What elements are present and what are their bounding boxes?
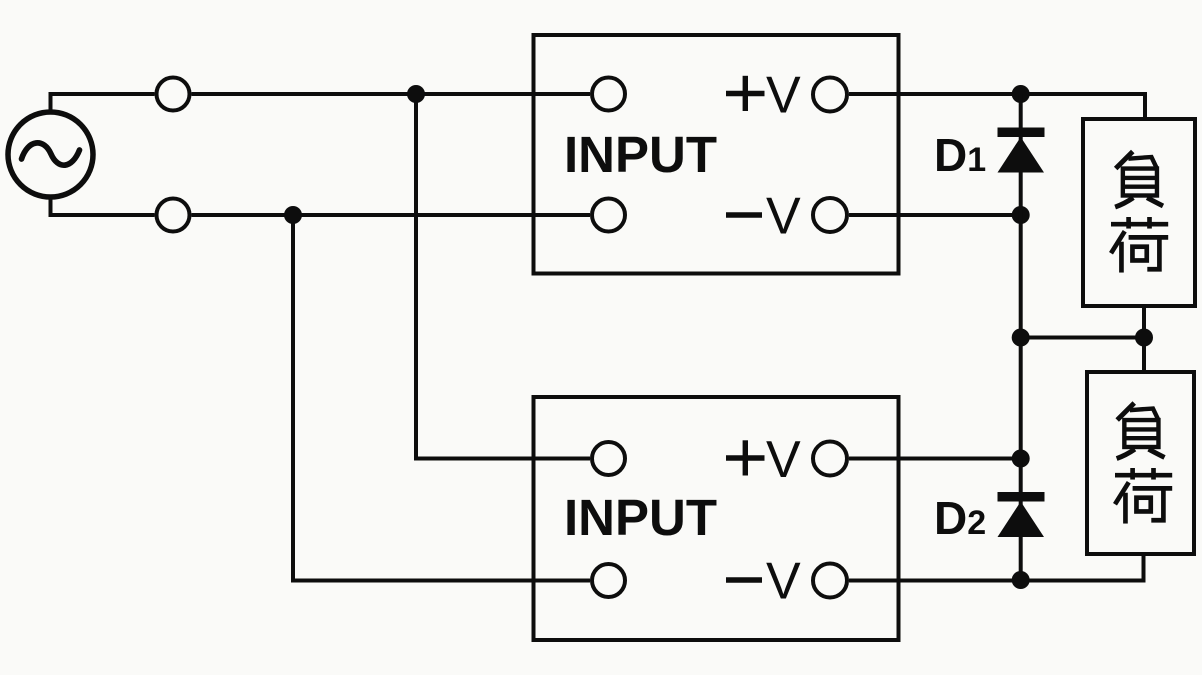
label -V U2 — [726, 577, 762, 583]
wire U2 +V out — [849, 457, 1021, 461]
wire U1 +V out to load 1 — [849, 94, 1145, 119]
label +V U1 — [726, 76, 765, 111]
svg-text:V: V — [766, 431, 801, 489]
load 1 kanji ka (carry) — [1111, 217, 1168, 273]
node J7 — [1012, 450, 1030, 468]
wire U1 -V out — [849, 213, 1021, 217]
power supply box U1 — [534, 35, 899, 274]
wire mid link — [1021, 336, 1144, 340]
wire J1 down to INPUT2 +in — [416, 94, 590, 459]
wire D2 branch vertical — [1019, 459, 1023, 581]
U2 +V pin — [813, 442, 847, 476]
diode D2 — [998, 492, 1045, 537]
load 2 box — [1087, 372, 1194, 554]
AC source — [8, 112, 93, 197]
wire load 2 top stub — [1142, 338, 1146, 373]
terminal T2 — [157, 199, 190, 232]
U2 -V pin — [813, 564, 847, 598]
wire AC top to terminal — [51, 94, 155, 110]
wire top rail to INPUT1 — [192, 92, 591, 96]
label -V U1 — [726, 212, 762, 218]
svg-text:INPUT: INPUT — [564, 489, 717, 546]
svg-text:INPUT: INPUT — [564, 126, 717, 183]
wire U2 -V rail to load 2 — [849, 554, 1144, 581]
node J3 — [1012, 85, 1030, 103]
svg-text:V: V — [766, 188, 801, 246]
wire AC bottom to terminal — [51, 199, 155, 215]
svg-text:D1: D1 — [934, 129, 986, 181]
wire J2 down to INPUT2 -in — [293, 215, 590, 581]
label +V U2 — [726, 440, 765, 475]
terminal T1 — [157, 78, 190, 111]
U1 -V pin — [813, 198, 847, 232]
AC sine symbol — [22, 143, 80, 165]
node J6 — [1135, 329, 1153, 347]
load 1 kanji fu (load) — [1115, 152, 1163, 208]
U1 +V pin — [813, 78, 847, 112]
power supply box U2 — [534, 397, 899, 640]
wire second rail to INPUT1 — [192, 213, 591, 217]
load 2 kanji fu (load) — [1117, 403, 1165, 459]
wire D1 branch vertical — [1019, 94, 1023, 459]
node J4 — [1012, 206, 1030, 224]
wire load 1 bottom stub — [1142, 306, 1146, 338]
U2 input pin 1 — [592, 442, 625, 475]
node J2 — [284, 206, 302, 224]
diode D1 — [998, 128, 1045, 173]
U2 input pin 2 — [592, 564, 625, 597]
svg-text:V: V — [766, 553, 801, 611]
svg-text:V: V — [766, 67, 801, 125]
node J5 — [1012, 329, 1030, 347]
U1 input pin 1 — [592, 78, 625, 111]
svg-text:D2: D2 — [934, 492, 986, 544]
node J1 — [407, 85, 425, 103]
load 1 box — [1083, 119, 1195, 306]
node J8 — [1012, 571, 1030, 589]
U1 input pin 2 — [592, 199, 625, 232]
load 2 kanji ka (carry) — [1115, 468, 1172, 524]
